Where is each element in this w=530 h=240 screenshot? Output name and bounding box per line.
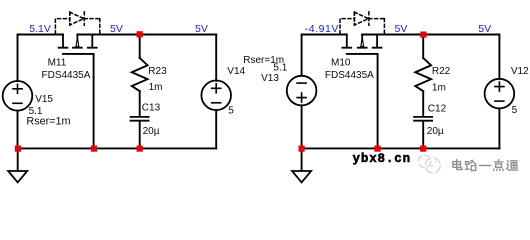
svg-text:5V: 5V	[195, 23, 208, 35]
wire: V12 bottom lead	[498, 108, 500, 148]
svg-text:M11: M11	[48, 58, 67, 69]
svg-text:FDS4435A: FDS4435A	[325, 70, 374, 81]
svg-text:5: 5	[228, 106, 234, 117]
ground (left circuit)	[17, 148, 19, 170]
svg-text:5: 5	[512, 105, 518, 116]
transistor M11 body leg with arrow	[73, 35, 82, 48]
svg-text:20µ: 20µ	[427, 126, 444, 137]
svg-text:20µ: 20µ	[143, 126, 160, 137]
watermark logo circles	[419, 155, 441, 173]
voltage source V12	[485, 79, 515, 109]
voltage source V13 (flipped)	[287, 76, 317, 106]
capacitor C13	[131, 117, 149, 121]
ground (right circuit)	[301, 148, 303, 170]
wire: C12 bottom lead	[422, 121, 424, 148]
svg-text:V13: V13	[261, 73, 279, 84]
node: junction C12 / bottom rail	[420, 146, 426, 152]
node: junction C13 / bottom rail	[137, 146, 143, 152]
wire: right circuit top-left segment (-4.91V net)	[302, 35, 347, 76]
wire: left circuit bottom rail	[18, 147, 217, 149]
svg-text:-4.91V: -4.91V	[305, 23, 339, 35]
watermark text dianlu-yidiantong (drawn strokes)	[454, 161, 519, 172]
svg-text:5V: 5V	[110, 23, 123, 35]
wire: V14 bottom lead	[215, 110, 217, 148]
wire: C13 bottom lead	[139, 121, 141, 148]
wire: right circuit top-right segment (5V net)	[362, 34, 499, 36]
svg-text:ybx8.cn: ybx8.cn	[353, 152, 411, 166]
node: junction R23 top (5V net)	[137, 31, 143, 37]
transistor M11 drain leg	[88, 35, 97, 48]
body diode of M11 (dashed)	[55, 12, 99, 34]
svg-text:C13: C13	[142, 102, 161, 113]
svg-text:1m: 1m	[149, 82, 163, 93]
transistor M10 body leg with arrow	[358, 35, 367, 48]
svg-text:V15: V15	[35, 94, 53, 105]
transistor M11 gate and gate wire to ground rail	[63, 54, 94, 148]
svg-text:FDS4435A: FDS4435A	[42, 70, 91, 81]
wire: V12 top lead	[498, 35, 500, 79]
node: junction ground / V15 (left)	[15, 146, 21, 152]
transistor M10 gate and gate wire to ground rail	[347, 54, 378, 148]
svg-text:5.1V: 5.1V	[29, 23, 51, 35]
svg-text:1m: 1m	[432, 83, 446, 94]
body diode of M10 (dashed)	[340, 12, 384, 34]
wire: V15 bottom lead	[17, 111, 19, 149]
node: junction R22 top (5V net)	[420, 32, 426, 38]
node: junction gate M10 / bottom rail	[374, 146, 380, 152]
resistor R22	[415, 58, 431, 91]
capacitor C12	[414, 117, 432, 121]
node: junction gate M11 / bottom rail	[91, 146, 97, 152]
wire: V14 top lead	[215, 35, 217, 81]
resistor R23	[132, 58, 148, 91]
wire: right circuit bottom rail	[302, 147, 500, 149]
voltage source V15	[3, 81, 33, 111]
wire: left circuit top-left segment (5.1V net)	[18, 35, 64, 82]
wire: left circuit top-right segment (5V net)	[77, 34, 216, 36]
wire: R23 top lead	[139, 35, 141, 59]
transistor M11 body arrow	[76, 38, 79, 47]
svg-text:V12: V12	[511, 66, 529, 77]
transistor M11 source leg	[59, 35, 68, 48]
transistor M10 body arrow	[361, 38, 364, 47]
svg-text:Rser=1m: Rser=1m	[26, 116, 70, 128]
voltage source V14	[201, 81, 231, 111]
wire: R22 to C12	[422, 91, 424, 116]
transistor M10 source leg	[342, 35, 351, 48]
svg-text:R23: R23	[148, 66, 167, 77]
wire: R23 to C13	[139, 91, 141, 116]
svg-text:M10: M10	[331, 58, 351, 69]
svg-text:R22: R22	[432, 66, 451, 77]
svg-text:5V: 5V	[478, 23, 491, 35]
svg-text:V14: V14	[227, 66, 245, 77]
wire: V13 bottom lead	[301, 105, 303, 148]
wire: R22 top lead	[422, 35, 424, 59]
node: junction ground / V13 (right)	[299, 146, 305, 152]
svg-text:C12: C12	[428, 104, 447, 115]
transistor M10 drain leg	[373, 35, 382, 48]
svg-text:5V: 5V	[395, 23, 408, 35]
